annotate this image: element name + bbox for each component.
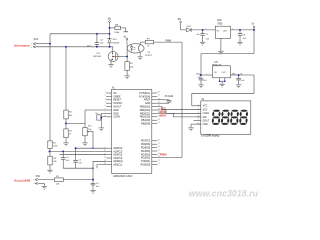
svg-text:SCK: SCK [203,110,208,112]
wire XS1 pin1 to 36v rail [36,43,50,45]
wire DA2 GND pin [220,38,222,51]
node DA2 out junction [239,29,241,31]
svg-text:100u: 100u [196,74,200,76]
svg-text:1: 1 [31,44,32,46]
svg-text:Led1088 display: Led1088 display [201,135,220,138]
capacitor C9 [232,74,244,85]
node DA1 out junction [238,74,240,76]
node C4 bottom [96,46,98,48]
svg-text:4: 4 [198,116,199,118]
terminal 36v [107,19,112,34]
svg-text:1: 1 [105,92,106,94]
svg-text:Шпиндель: Шпиндель [14,43,30,47]
node DA2 input junction [202,29,204,31]
svg-text:GND: GND [203,124,208,126]
node C4 top [96,33,98,35]
ground C6 [198,85,204,88]
svg-text:18: 18 [158,139,160,141]
ground R1 [63,143,69,146]
label Led display [201,135,220,138]
capacitor C4 [95,34,105,47]
svg-text:DIN: DIN [203,117,207,119]
label VT1 [93,53,102,58]
node gate junction [126,56,128,58]
node divider tap [65,122,67,124]
wire A5 jog [97,165,106,169]
label SP1 [87,45,92,47]
resistor R7 [140,39,153,48]
svg-text:0u1: 0u1 [204,80,207,82]
svg-text:1: 1 [206,73,207,75]
svg-text:10u: 10u [196,34,199,36]
svg-text:1N5349: 1N5349 [112,42,120,44]
svg-text:2: 2 [31,47,32,49]
transistor VT1 (MOSFET) [108,47,118,65]
resistor R3 [48,141,58,152]
svg-text:LOAD: LOAD [203,112,210,115]
wire A1 line [50,150,107,152]
svg-text:19: 19 [158,122,160,124]
ground VT1 source [108,65,114,68]
wire vertical x50 down to divider chain [49,34,51,141]
svg-text:IRF3205: IRF3205 [93,56,102,58]
wire tap to pot [66,122,85,124]
resistor R2 [38,176,93,186]
node C2 top [75,147,77,149]
label PWM (red) [160,152,167,156]
svg-text:5: 5 [198,119,199,121]
svg-text:11: 11 [158,163,160,165]
svg-text:12: 12 [158,160,160,162]
svg-text:1: 1 [198,104,199,106]
wire display GND [191,124,201,128]
MCU left pins [104,92,123,167]
svg-text:PB0(D8): PB0(D8) [141,123,150,126]
capacitor C7 [196,30,210,42]
svg-text:TA78L05F: TA78L05F [212,63,222,66]
svg-text:20: 20 [158,119,160,121]
svg-text:12: 12 [104,157,106,159]
wire SPI to display LOAD [157,110,201,113]
ground filter [99,128,105,131]
svg-text:www.cnc3018.ru: www.cnc3018.ru [189,188,259,198]
svg-text:25: 25 [158,102,160,104]
label PWM input (red) [14,179,30,183]
resistor R9 [48,151,57,170]
capacitor C6 [196,74,207,85]
svg-text:2: 2 [198,108,199,110]
svg-text:15: 15 [158,150,160,152]
wire ground rail [63,167,93,169]
wire DA1 gnd pins [219,78,226,84]
svg-text:17: 17 [158,143,160,145]
svg-text:VCC: VCC [203,106,208,108]
ground C9 [236,85,242,88]
node RC junction [92,179,94,181]
wire SPI to display DIN [157,113,201,117]
svg-text:10k: 10k [53,161,56,163]
svg-text:C9: C9 [240,74,242,76]
resistor R8 [110,24,129,34]
node 36v rail-VD1 junction [109,33,111,35]
node XS1 pin1 junction [49,43,51,45]
wire DA1 in [201,73,213,75]
node pin2-divider junction [65,46,67,48]
wire A2 line [60,154,107,156]
label MOSI (red) [160,111,167,114]
regulator DA2 7805 [205,19,233,38]
svg-text:MISO: MISO [160,115,166,118]
capacitor C1 [61,151,70,168]
node 5v junction [253,29,255,31]
resistor R1 [64,119,73,143]
svg-text:16: 16 [158,146,160,148]
connector XS2 [34,176,41,185]
display digits 8888 [212,110,249,125]
label U1 [145,52,152,57]
svg-text:7805: 7805 [217,24,223,26]
svg-text:OUT: OUT [223,31,228,33]
resistor R4 [64,47,74,119]
svg-text:28: 28 [158,92,160,94]
display module A2 [201,98,251,134]
ground opto LED cathode [137,57,143,60]
terminal 5v out [252,24,255,30]
svg-text:11: 11 [104,153,106,155]
svg-text:24: 24 [158,105,160,107]
ground DA2 [218,51,224,54]
svg-text:12VIN: 12VIN [113,116,120,119]
svg-text:XS2: XS2 [36,176,41,178]
svg-text:5: 5 [105,105,106,107]
svg-text:10: 10 [104,150,106,152]
svg-text:14: 14 [104,163,106,165]
svg-text:6: 6 [105,109,106,111]
svg-text:4: 4 [105,102,106,104]
ground C7 [200,42,206,45]
optocoupler U1 PC817 [127,42,144,57]
svg-text:14: 14 [158,153,160,155]
ground R9 [47,170,53,173]
svg-text:26: 26 [158,98,160,100]
svg-text:RXD(D0): RXD(D0) [140,164,150,167]
svg-text:6: 6 [198,123,199,125]
svg-text:8: 8 [105,115,106,117]
wire A4 to RC node [92,161,106,179]
node VD1 bottom [109,46,111,48]
svg-text:PWM: PWM [160,152,167,156]
svg-text:27: 27 [158,95,160,97]
wire XS1 pin2 to VT1 drain [36,46,113,48]
watermark [189,188,259,198]
svg-text:Вход ШИМ: Вход ШИМ [14,179,30,183]
svg-text:13: 13 [158,156,160,158]
display pins [194,104,210,126]
capacitor C5 (AREF) [157,96,174,103]
ground RV1 [82,143,88,146]
ground DA1 [219,84,225,87]
ground C3 [90,190,96,193]
wire DA2 out [230,29,254,31]
svg-text:1: 1 [205,28,206,30]
svg-text:DA2: DA2 [217,19,222,22]
regulator DA1 78L05 [212,61,230,78]
wire SPI SCK to display [157,107,201,110]
wire XS2 pin2 to ground [38,183,45,186]
svg-text:3: 3 [105,98,106,100]
IC A1 Arduino [112,87,152,174]
label MISO (red) [160,115,166,118]
zener diode VD1 [107,34,120,47]
wire DA1 out [230,73,254,75]
svg-text:A5(SCL): A5(SCL) [112,164,122,167]
svg-text:Rv: Rv [96,113,98,115]
label ARDUINO UNO [113,174,132,178]
label SCK (red) [161,107,166,110]
svg-text:DOUT: DOUT [203,120,210,122]
svg-text:OUT: OUT [222,72,227,74]
wire A0 line [76,148,107,149]
capacitor C8 [238,30,247,42]
svg-text:C6: C6 [198,77,200,79]
svg-text:1: 1 [34,179,35,181]
ground display [188,128,194,131]
svg-text:PC817: PC817 [145,55,152,57]
capacitor C3 [91,180,101,191]
ground XS2 [42,186,48,189]
potentiometer RV1 [83,126,93,149]
wire 36v rail top [50,33,110,35]
svg-text:PD2(D2): PD2(D2) [141,156,151,159]
wire +5v rail to display VCC [192,75,254,106]
connector XS1 (spindle) [31,38,38,49]
diode VD2 [181,26,216,32]
wire pot top to MCU [85,110,106,128]
svg-text:13: 13 [104,160,106,162]
svg-text:2: 2 [105,95,106,97]
svg-text:XS1: XS1 [34,38,39,41]
terminal 36v (DA2) [178,19,183,30]
node 36v-R8 junction [109,27,111,29]
wire 5v to DA1 in [201,30,254,75]
svg-text:100k: 100k [53,145,57,147]
wire VT1 gate to opto node [118,56,127,58]
node chain tap [49,150,51,152]
capacitor C2 [73,148,82,168]
svg-text:9: 9 [105,147,106,149]
ground C8 [237,42,243,45]
label spindle (red) [14,43,30,47]
wire PWM net [154,42,182,157]
ground R5 [124,76,130,79]
resistor R5 (gate pulldown) [125,57,134,76]
label PWM (top) [165,40,171,43]
MCU right pins [139,92,160,167]
svg-text:2: 2 [34,183,35,185]
capacitor filter (near MCU) [96,113,107,128]
node C1 top [62,150,64,152]
svg-text:7: 7 [105,112,106,114]
svg-text:ARDUINO UNO: ARDUINO UNO [113,174,132,178]
svg-text:3: 3 [198,112,199,114]
svg-text:C5 0u22: C5 0u22 [165,96,174,98]
svg-text:0u1: 0u1 [241,80,244,82]
terminal 5v (opto) [124,36,128,44]
node DA1 in junction [200,74,202,76]
svg-text:100u: 100u [232,74,236,76]
